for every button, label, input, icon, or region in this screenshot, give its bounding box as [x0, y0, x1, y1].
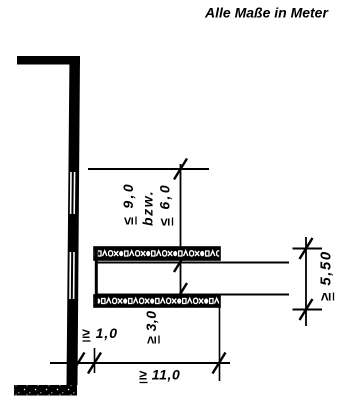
svg-text:≤ 9,0: ≤ 9,0 — [120, 182, 136, 225]
tick 5,50 bottom — [300, 299, 313, 320]
bottom dimension line — [50, 362, 230, 364]
ext stub top — [293, 248, 323, 250]
label 1,0 — [82, 325, 118, 341]
vertical dimension line 9.0/3.0 — [180, 164, 182, 295]
svg-text:≥ 3,0: ≥ 3,0 — [143, 310, 159, 344]
top reference line — [88, 168, 209, 170]
ext stub bottom — [293, 309, 323, 311]
wall foot — [14, 385, 77, 396]
svg-text:Alle Maße in Meter: Alle Maße in Meter — [204, 5, 329, 21]
svg-text:bzw.: bzw. — [140, 190, 156, 226]
wall vertical — [67, 56, 81, 385]
label 3,0 — [143, 310, 159, 344]
svg-text:≤ 6,0: ≤ 6,0 — [157, 183, 173, 226]
wall window hatch A — [71, 172, 75, 214]
tick mid — [174, 251, 187, 272]
bottom bar (lower wall) — [94, 295, 220, 307]
tick bottom — [174, 283, 187, 304]
label 9,0 bzw 6,0 — [120, 182, 173, 226]
wall window hatch B — [70, 252, 74, 299]
tick 1,0 — [88, 353, 101, 374]
tick wall — [72, 353, 85, 374]
tick 11,0 right — [213, 353, 226, 374]
svg-text:≥ 1,0: ≥ 1,0 — [82, 325, 118, 341]
top bar (upper wall) — [94, 247, 220, 260]
wall top arm — [17, 56, 80, 65]
lane top edge line — [96, 262, 289, 264]
dimension 5,50 vertical line — [305, 237, 307, 326]
svg-text:≥ 11,0: ≥ 11,0 — [139, 367, 180, 383]
tick 5,50 top — [300, 238, 313, 259]
svg-text:≥ 5,50: ≥ 5,50 — [318, 250, 335, 301]
ext line at 1,0 — [94, 348, 96, 373]
ext line right — [219, 307, 221, 381]
label 5,50 — [318, 250, 335, 301]
left connector — [95, 247, 98, 307]
label 11,0 — [139, 367, 180, 383]
lane bottom edge line — [96, 294, 289, 296]
tick top — [174, 159, 187, 180]
